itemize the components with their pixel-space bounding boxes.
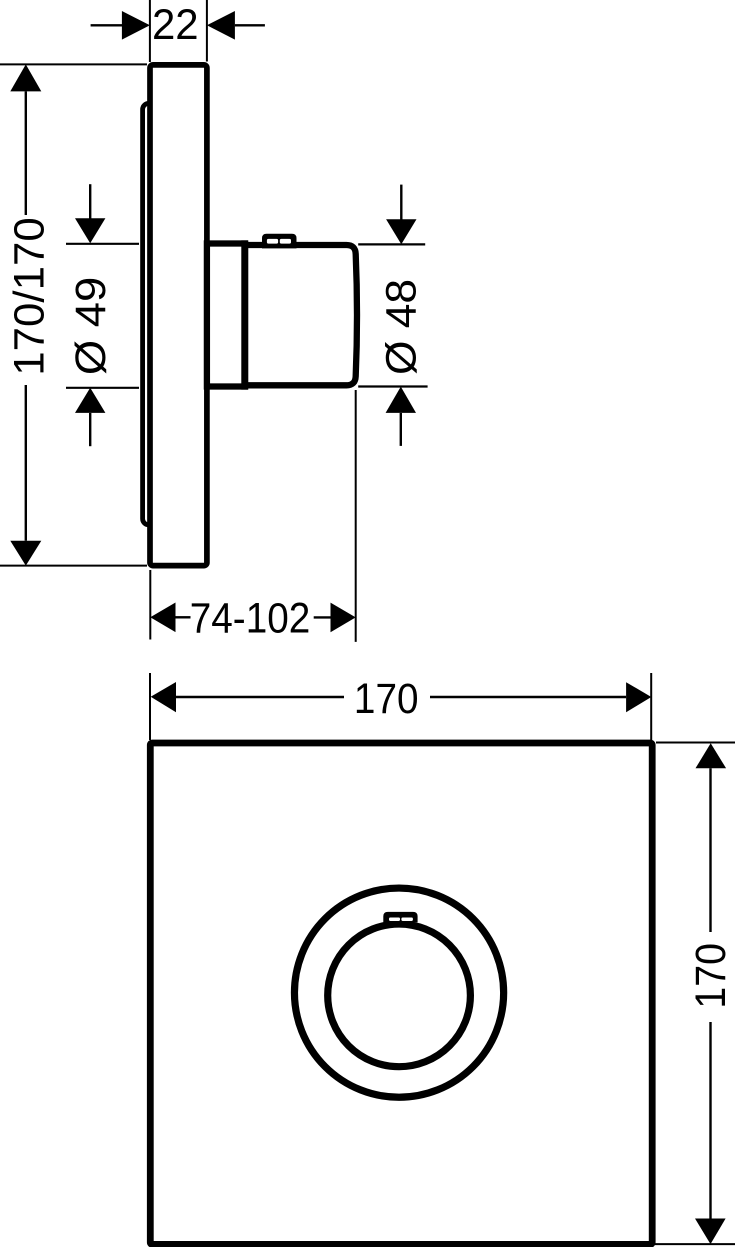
- dim 74-102: right extension line: [355, 390, 357, 642]
- dim Ø48: upper arrow: [400, 185, 402, 220]
- dim 74-102: left extension line: [149, 570, 151, 640]
- dim 22: right arrow: [235, 24, 265, 26]
- tab slot right (side view): [280, 239, 291, 244]
- handle index tab (front view): [383, 912, 417, 923]
- svg-text:22: 22: [152, 1, 199, 49]
- dim 74-102: left arrow: [150, 603, 175, 633]
- front tab slot right: [401, 918, 413, 922]
- knob collar (side view): [207, 244, 245, 387]
- dim 170/170: bottom extension line: [0, 565, 147, 567]
- dim 170/170: dimension line lower segment: [25, 385, 27, 541]
- svg-text:74-102: 74-102: [190, 594, 310, 642]
- inner circle (handle, front view): [328, 924, 471, 1067]
- dim 170 right (front): top arrow: [696, 743, 727, 768]
- dim 170 right (front): bottom extension line: [655, 1243, 735, 1245]
- dim 170/170: bottom arrow: [10, 541, 41, 566]
- escutcheon plate (side view): [150, 65, 207, 566]
- svg-text:Ø 48: Ø 48: [377, 279, 425, 375]
- dim 170/170: dimension line upper segment: [25, 91, 27, 215]
- outer circle (escutcheon opening, front view): [294, 888, 503, 1097]
- dim 74-102: right arrow: [331, 603, 356, 633]
- dim 170 top (front): left arrow: [151, 682, 176, 712]
- dim Ø48: lower arrow: [386, 387, 416, 413]
- svg-text:170/170: 170/170: [6, 217, 54, 376]
- collar/knob divider line: [241, 240, 248, 389]
- dim 22: left extension line: [149, 0, 151, 62]
- dim Ø48: bottom reference line: [358, 385, 427, 387]
- dim 22: right extension line: [206, 0, 208, 62]
- dim 170 right (front): top extension line: [656, 742, 735, 744]
- dim Ø49: lower arrow: [75, 388, 105, 413]
- dim Ø48: top reference line: [358, 243, 425, 245]
- front view square plate: [150, 743, 652, 1244]
- dim 22: left arrow: [91, 24, 123, 26]
- svg-text:170: 170: [354, 674, 419, 722]
- dim Ø49: upper arrow: [89, 184, 91, 220]
- dim Ø49: bottom reference line: [66, 387, 139, 389]
- dim 170/170: top arrow: [10, 64, 41, 91]
- wall flange (back plate, side view): [143, 103, 173, 524]
- tab slot left (side view): [267, 239, 278, 244]
- svg-text:170: 170: [686, 943, 734, 1009]
- dim 170 top (front): right arrow: [626, 682, 651, 712]
- dim 170 right (front): bottom arrow: [695, 1219, 726, 1245]
- dim 170/170: top extension line: [0, 63, 147, 65]
- dim 170 top (front): right extension line: [650, 673, 652, 740]
- handle knob body (side view): [245, 245, 357, 385]
- handle index tab (side view): [262, 234, 297, 249]
- front tab slot left: [389, 918, 400, 922]
- dim 170 top (front): left extension line: [149, 673, 151, 740]
- svg-text:Ø 49: Ø 49: [67, 277, 115, 375]
- dim Ø49: top reference line: [66, 243, 139, 245]
